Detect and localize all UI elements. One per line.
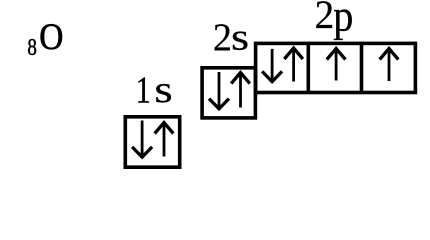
label 2p bbox=[315, 0, 354, 41]
label 1s bbox=[136, 70, 173, 112]
svg-text:8: 8 bbox=[27, 34, 37, 61]
2p cell1 up arrow bbox=[284, 48, 303, 82]
svg-text:2: 2 bbox=[315, 0, 335, 37]
svg-text:s: s bbox=[231, 16, 249, 58]
2s orbital box bbox=[202, 68, 255, 118]
2p cell1 down arrow bbox=[262, 49, 282, 82]
svg-text:1: 1 bbox=[136, 70, 151, 112]
svg-text:p: p bbox=[333, 0, 353, 41]
svg-text:O: O bbox=[39, 17, 63, 58]
1s down arrow (paired electron) bbox=[132, 121, 152, 158]
1s orbital box bbox=[125, 117, 179, 167]
svg-text:s: s bbox=[154, 70, 172, 112]
label 2s bbox=[213, 16, 249, 59]
2p cell2 up arrow (unpaired electron) bbox=[327, 49, 346, 81]
svg-text:2: 2 bbox=[213, 17, 232, 59]
element symbol O bbox=[39, 17, 63, 58]
2s down arrow (paired electron) bbox=[209, 72, 229, 109]
1s up arrow (paired electron) bbox=[155, 123, 174, 157]
2s up arrow (paired electron) bbox=[231, 73, 250, 108]
2p cell3 up arrow (unpaired electron) bbox=[380, 49, 399, 82]
element symbol subscript 8 bbox=[27, 34, 37, 61]
2p orbital row (three cells) bbox=[256, 43, 416, 92]
